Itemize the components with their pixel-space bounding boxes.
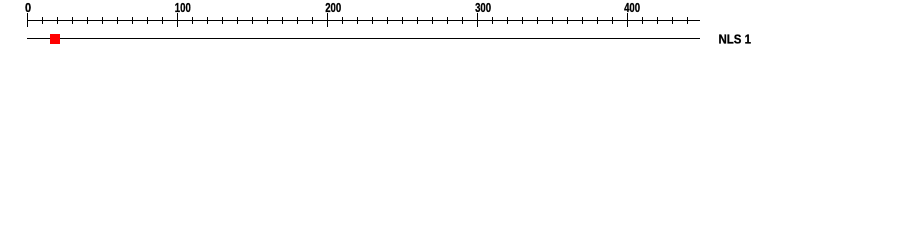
svg-text:300: 300 — [475, 0, 491, 15]
major ticks at 0,100,200,300,400 — [27, 13, 29, 27]
ruler axis line — [27, 20, 700, 22]
svg-text:100: 100 — [175, 0, 191, 15]
minor ticks every 10 units — [42, 17, 44, 24]
svg-text:200: 200 — [325, 0, 341, 15]
svg-text:0: 0 — [25, 0, 31, 15]
NLS marker (red square) — [50, 34, 60, 44]
svg-text:NLS 1: NLS 1 — [719, 32, 752, 47]
sequence line — [27, 38, 700, 40]
svg-text:400: 400 — [624, 0, 640, 15]
